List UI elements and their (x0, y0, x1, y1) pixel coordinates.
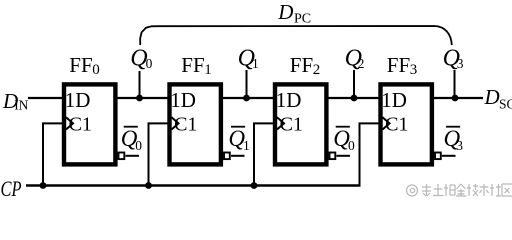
svg-text:SO: SO (499, 97, 512, 112)
svg-text:1: 1 (243, 138, 250, 153)
svg-text:D: D (277, 0, 293, 24)
svg-text:FF: FF (387, 53, 410, 77)
svg-text:3: 3 (410, 62, 418, 78)
svg-text:1: 1 (204, 62, 212, 78)
svg-text:0: 0 (135, 138, 142, 153)
svg-text:3: 3 (456, 138, 463, 153)
svg-text:0: 0 (146, 56, 153, 71)
svg-text:D: D (484, 85, 500, 109)
svg-text:2: 2 (358, 56, 365, 71)
svg-text:1: 1 (252, 56, 259, 71)
svg-text:FF: FF (181, 53, 204, 77)
svg-text:CP: CP (1, 176, 22, 201)
svg-text:2: 2 (313, 62, 321, 78)
svg-text:PC: PC (294, 12, 311, 27)
svg-text:IN: IN (14, 98, 28, 113)
svg-text:0: 0 (348, 138, 355, 153)
svg-text:3: 3 (457, 56, 464, 71)
svg-text:0: 0 (92, 62, 100, 78)
svg-text:FF: FF (69, 53, 92, 77)
svg-text:FF: FF (290, 53, 313, 77)
svg-text:1D: 1D (65, 88, 91, 112)
